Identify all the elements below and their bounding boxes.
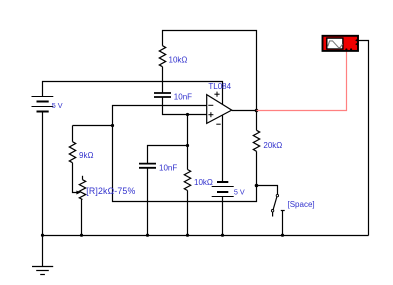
wire R5 bottom to switch node (256, 151, 258, 185)
wire R4 bottom to ground rail (187, 191, 189, 236)
svg-text:10kΩ: 10kΩ (194, 178, 213, 187)
wire op-amp output (232, 110, 257, 112)
wire branch to resistor R2 (73, 125, 113, 127)
wire non-inverting net down to resistor R4 (187, 115, 189, 170)
resistor R1 10k (feedback) (159, 46, 165, 67)
svg-text:TL084: TL084 (208, 82, 231, 91)
node junction switch/ground rail (281, 234, 284, 237)
node junction V2/ground rail (221, 234, 224, 237)
wire oscilloscope ground return (358, 41, 368, 236)
wire op-amp inverting input net (113, 106, 257, 202)
wire op-amp V- pin to battery V2 (222, 115, 224, 182)
node junction battery V1 / ground (41, 234, 44, 237)
ground (32, 236, 53, 275)
wire V+ rail from battery V1 to op-amp V+ pin (43, 82, 223, 105)
resistor R4 10k (184, 170, 190, 191)
capacitor C1 10nF (154, 93, 171, 97)
node junction R4/ground rail (186, 234, 189, 237)
svg-text:20kΩ: 20kΩ (263, 141, 282, 150)
node junction inverting net / R2 branch (111, 124, 114, 127)
node junction C2/ground rail (146, 234, 149, 237)
node junction C1/R4 at non-inverting input (186, 113, 189, 116)
node junction R3/ground rail (80, 234, 83, 237)
svg-text:[Space]: [Space] (288, 200, 315, 209)
svg-text:5 V: 5 V (52, 101, 63, 110)
svg-text:[R]2kΩ-75%: [R]2kΩ-75% (86, 186, 135, 196)
svg-text:5 V: 5 V (234, 187, 245, 196)
wire R3 bottom to ground rail (81, 200, 83, 236)
potentiometer R3 2k (79, 176, 85, 200)
resistor R2 9k (69, 142, 75, 163)
wire R2 bottom to potentiometer wiper (73, 163, 78, 193)
wire C1 bottom to op-amp non-inverting input (163, 97, 207, 115)
battery V2 5V (212, 182, 234, 197)
svg-text:10kΩ: 10kΩ (169, 55, 188, 64)
node junction output/feedback (255, 109, 259, 113)
resistor R5 20k (253, 130, 259, 151)
node junction C2/R4 vertical (186, 144, 189, 147)
oscilloscope XSC1 (323, 36, 359, 51)
wire bottom ground rail (43, 235, 369, 237)
wire op-amp output to oscilloscope probe (red) (257, 51, 347, 111)
switch S1 [Space] (257, 186, 285, 236)
wire C2 top to non-inverting net (148, 146, 188, 164)
wire battery V1 negative to ground rail (42, 112, 44, 236)
op-amp U1 TL084 (207, 92, 232, 125)
wire C2 bottom to ground rail (147, 168, 149, 236)
wire R2 top lead (72, 126, 74, 142)
wire output junction to R5 top (256, 111, 258, 131)
wire top feedback net (163, 31, 257, 111)
capacitor C2 10nF (139, 164, 156, 168)
potentiometer wiper arrow (76, 191, 80, 195)
wire battery V2 positive to ground rail (222, 197, 224, 236)
battery V1 5V (32, 97, 54, 112)
node junction R5/switch/inverting net (255, 184, 259, 188)
svg-text:9kΩ: 9kΩ (79, 151, 93, 160)
wire R1 bottom to capacitor C1 (162, 67, 164, 93)
svg-text:10nF: 10nF (159, 164, 177, 173)
svg-text:10nF: 10nF (174, 92, 192, 101)
